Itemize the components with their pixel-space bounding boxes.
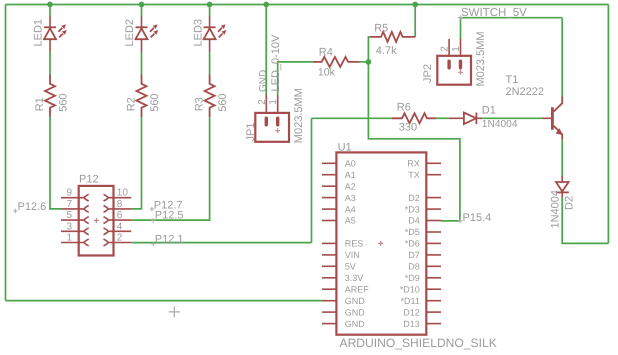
svg-text:R4: R4 [319, 47, 333, 59]
junction at R5 top rail [412, 2, 418, 8]
svg-text:LED2: LED2 [124, 19, 136, 47]
wire LED3 column [209, 5, 211, 17]
svg-text:2: 2 [257, 99, 268, 105]
svg-text:1N4004: 1N4004 [482, 119, 518, 130]
T1 collector [554, 97, 563, 112]
wire GND net to JP1 pin 2 [265, 5, 267, 95]
wire right border [607, 5, 609, 244]
svg-text:R6: R6 [397, 102, 411, 114]
T1 emitter arrow [556, 128, 563, 135]
U1 pin A2 [322, 185, 336, 187]
svg-text:M023.5MM: M023.5MM [475, 31, 487, 86]
P12 pin 7 [61, 206, 89, 213]
connector JP1 [245, 88, 305, 143]
P12 pin 10 [104, 194, 132, 201]
U1 pin D12 [426, 311, 441, 313]
wire D1 to T1 base [482, 117, 542, 119]
svg-text:T1: T1 [506, 74, 519, 86]
U1 pin *D5 [426, 231, 441, 233]
wire SWITCH_5V net [460, 17, 562, 19]
U1 pin VIN [322, 254, 336, 256]
svg-text:1: 1 [67, 233, 73, 244]
svg-text:M023.5MM: M023.5MM [293, 88, 305, 143]
svg-text:1: 1 [451, 46, 462, 52]
junction R4/R5 node [366, 59, 372, 65]
svg-text:U1: U1 [338, 141, 352, 153]
svg-text:*D9: *D9 [405, 273, 420, 283]
svg-text:VIN: VIN [345, 250, 360, 260]
U1 pin GND [322, 323, 336, 325]
svg-text:GND: GND [345, 307, 366, 317]
U1 pin *D6 [426, 242, 441, 244]
svg-text:1: 1 [268, 99, 279, 105]
wire R5 to top rail [414, 5, 416, 37]
U1 pin AREF [322, 288, 336, 290]
svg-text:JP1: JP1 [245, 123, 257, 142]
U1 pin D7 [426, 254, 441, 256]
U1 pin D2 [426, 197, 441, 199]
svg-text:2: 2 [117, 233, 123, 244]
U1 origin cross [378, 241, 383, 246]
resistor R4 10k [313, 47, 360, 79]
svg-text:1N4004: 1N4004 [550, 190, 562, 229]
U1 pin GND [322, 311, 336, 313]
JP2 pin 2 stub [448, 39, 450, 57]
P12 pin 1 [61, 239, 89, 246]
P12 pin 5 [61, 217, 89, 224]
wire P15.4 net: junction down, over to U1 D4 pin [368, 62, 460, 221]
svg-text:3: 3 [67, 221, 73, 232]
U1 pin *D10 [426, 288, 441, 290]
wire SWITCH_5V to JP2 pin1 [460, 18, 462, 39]
U1 pin D13 [426, 323, 441, 325]
svg-text:R1: R1 [34, 97, 46, 111]
T1 base bar [551, 107, 554, 129]
svg-text:A5: A5 [345, 216, 356, 226]
svg-text:A0: A0 [345, 159, 356, 169]
svg-text:P12.5: P12.5 [155, 209, 184, 221]
svg-text:SWITCH_5V: SWITCH_5V [461, 7, 527, 19]
svg-text:GND: GND [258, 70, 269, 92]
svg-text:5V: 5V [345, 262, 356, 272]
junction at LED2 top [139, 2, 145, 8]
connector JP2 [422, 31, 487, 86]
svg-text:A3: A3 [345, 193, 356, 203]
svg-text:6: 6 [117, 210, 123, 221]
wire T1 emitter to D2 [561, 140, 563, 177]
wire LED_0-10V net JP1 pin1 to R4 [278, 62, 313, 96]
svg-text:560: 560 [149, 93, 161, 111]
svg-text:10: 10 [117, 188, 129, 199]
svg-text:LED_0-10V: LED_0-10V [270, 34, 282, 92]
svg-text:LED1: LED1 [33, 19, 45, 47]
junction at LED1 top [47, 2, 53, 8]
P12 pin 2 [104, 239, 132, 246]
U1 pin 5V [322, 265, 336, 267]
svg-text:D2: D2 [408, 193, 420, 203]
resistor R1 560 [34, 75, 70, 117]
svg-text:LED3: LED3 [192, 19, 204, 47]
svg-text:2: 2 [440, 46, 451, 52]
wire D2 cathode loop [562, 197, 608, 244]
svg-text:D2: D2 [564, 196, 576, 210]
wire LED1 column [49, 5, 51, 17]
wire left border [5, 5, 7, 301]
svg-text:2N2222: 2N2222 [506, 86, 545, 98]
P12 pin 4 [104, 228, 132, 235]
U1 pin D4 [426, 220, 441, 222]
svg-text:9: 9 [67, 188, 73, 199]
U1 pin *D11 [426, 300, 441, 302]
svg-text:R5: R5 [374, 22, 388, 34]
svg-text:A2: A2 [345, 181, 356, 191]
U1 pin *D9 [426, 277, 441, 279]
svg-text:R2: R2 [126, 97, 138, 111]
wire junction up to R5 [368, 37, 370, 62]
svg-text:AREF: AREF [345, 284, 370, 294]
U1 pin RES [322, 242, 336, 244]
wire P12.1 net: P12 pin2 to riser [131, 242, 311, 244]
svg-text:*D10: *D10 [400, 284, 420, 294]
T1 emitter [554, 126, 563, 140]
svg-text:P12.1: P12.1 [155, 233, 184, 245]
svg-text:560: 560 [58, 93, 70, 111]
svg-text:RES: RES [345, 239, 364, 249]
wire P12.1 riser [311, 118, 313, 242]
svg-text:330: 330 [399, 121, 417, 133]
P12 pin 3 [61, 228, 89, 235]
U1 pin A5 [322, 220, 336, 222]
svg-text:TX: TX [408, 170, 420, 180]
wire bottom border (GND to U1) [6, 300, 323, 302]
svg-text:*D11: *D11 [400, 296, 419, 306]
U1 pin D8 [426, 265, 441, 267]
svg-text:R3: R3 [194, 97, 206, 111]
svg-text:D4: D4 [408, 216, 420, 226]
wire R6 to D1 [436, 117, 449, 119]
svg-text:P15.4: P15.4 [463, 212, 492, 224]
svg-text:A1: A1 [345, 170, 356, 180]
svg-text:D7: D7 [408, 250, 420, 260]
resistor R6 330 [392, 102, 436, 134]
diode D2 1N4004 [550, 176, 576, 229]
svg-text:D12: D12 [403, 307, 420, 317]
LED LED1 [33, 17, 67, 52]
JP2 pin 1 stub [460, 39, 462, 57]
diode D1 1N4004 [449, 105, 518, 131]
wire R4 to junction node [359, 61, 368, 63]
junction at LED3 top [207, 2, 213, 8]
JP1 pin 2 stub [265, 95, 267, 115]
svg-text:10k: 10k [318, 67, 336, 79]
svg-text:P12.6: P12.6 [18, 201, 47, 213]
U1 pin RX [426, 162, 441, 164]
resistor R2 560 [126, 75, 162, 117]
T1 base stub [543, 117, 552, 119]
svg-text:4: 4 [117, 221, 123, 232]
svg-text:ARDUINO_SHIELDNO_SILK: ARDUINO_SHIELDNO_SILK [340, 336, 497, 350]
resistor R3 560 [194, 75, 230, 117]
U1 pin A4 [322, 208, 336, 210]
svg-text:A4: A4 [345, 204, 356, 214]
JP1 pin 1 stub [277, 96, 279, 115]
svg-text:D13: D13 [403, 319, 420, 329]
svg-text:P12: P12 [79, 174, 99, 186]
connector P12 [61, 174, 131, 256]
svg-text:GND: GND [345, 296, 366, 306]
svg-text:4.7k: 4.7k [376, 45, 397, 57]
wire LED2 column [141, 5, 143, 17]
svg-text:*D5: *D5 [405, 227, 420, 237]
wire T1 collector drop [561, 18, 563, 97]
svg-text:GND: GND [345, 319, 366, 329]
P12 pin 6 [104, 217, 132, 224]
svg-text:*D3: *D3 [405, 204, 420, 214]
U1 pin TX [426, 174, 441, 176]
U1 pin A3 [322, 197, 336, 199]
LED LED2 [124, 17, 158, 52]
U1 pin A0 [322, 162, 336, 164]
wire top supply rail [6, 4, 609, 6]
LED LED3 [192, 17, 226, 52]
U1 pin GND [322, 300, 336, 302]
svg-text:RX: RX [407, 159, 420, 169]
wire base net to R6 [312, 117, 392, 119]
svg-text:8: 8 [117, 199, 123, 210]
P12 pin 8 [104, 206, 132, 213]
svg-text:3.3V: 3.3V [345, 273, 364, 283]
U1 pin 3.3V [322, 277, 336, 279]
svg-text:7: 7 [67, 199, 73, 210]
sheet origin cross [169, 306, 180, 317]
U1 pin A1 [322, 174, 336, 176]
svg-text:D1: D1 [482, 105, 496, 117]
svg-text:560: 560 [217, 93, 229, 111]
svg-text:5: 5 [67, 210, 73, 221]
P12 origin cross [94, 218, 99, 223]
resistor R5 4.7k [370, 22, 415, 57]
transistor T1 2N2222 [506, 74, 563, 140]
svg-text:D8: D8 [408, 262, 420, 272]
JP2 origin cross [458, 70, 463, 75]
P12 pin 9 [61, 194, 89, 201]
svg-text:*D6: *D6 [405, 239, 420, 249]
U1 pin *D3 [426, 208, 441, 210]
svg-text:JP2: JP2 [422, 64, 434, 83]
junction at JP1 pin2 top [263, 2, 269, 8]
JP1 origin cross [275, 128, 280, 133]
IC U1 ARDUINO_SHIELDNO_SILK [322, 141, 497, 350]
